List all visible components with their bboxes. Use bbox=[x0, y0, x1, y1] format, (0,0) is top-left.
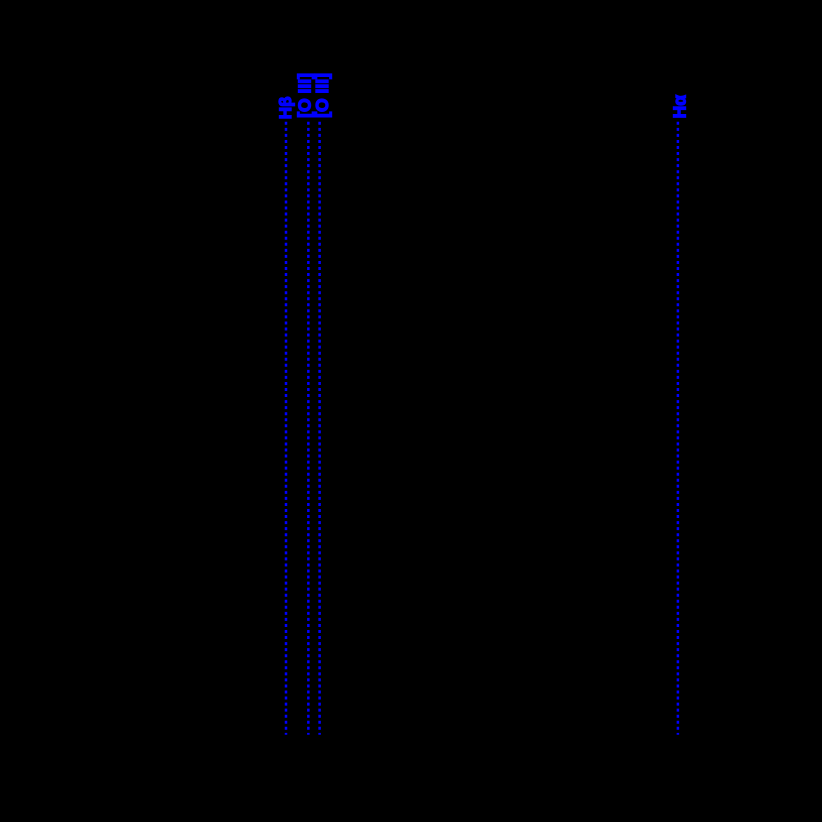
svg-text:Hα: Hα bbox=[670, 95, 690, 119]
line marker [O III] 5007 (dotted vertical) bbox=[318, 122, 321, 735]
line marker Hβ (dotted vertical) bbox=[285, 122, 288, 735]
line marker [O III] 4959 (dotted vertical) bbox=[307, 122, 310, 735]
svg-text:Hβ: Hβ bbox=[276, 97, 295, 120]
svg-text:[O III]: [O III] bbox=[312, 73, 332, 118]
line marker Hα (dotted vertical) bbox=[677, 122, 680, 735]
